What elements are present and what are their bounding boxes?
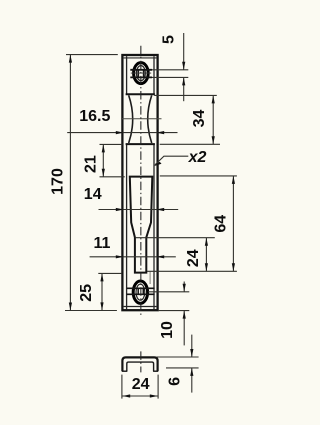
dim 6 extension bottom	[166, 367, 199, 369]
svg-text:64: 64	[212, 215, 229, 233]
inner bottom edge	[124, 306, 157, 308]
curved flange left	[129, 95, 133, 143]
dim 170 extension bottom	[65, 310, 117, 312]
section view inner profile	[127, 362, 154, 371]
dim 64 extension top	[160, 175, 237, 177]
svg-text:10: 10	[159, 321, 176, 339]
dim 34 extension top	[154, 94, 217, 96]
top hole slot sides	[137, 69, 139, 77]
dim 34 line	[212, 95, 214, 144]
bottom hole counterbore outer	[133, 281, 147, 303]
top hole slot lower edge	[130, 76, 152, 78]
inner flange line right	[153, 56, 155, 309]
dim 6 arrows	[190, 349, 193, 357]
dim 6 line lower	[191, 368, 193, 393]
dim 5 line upper	[183, 33, 185, 70]
top hole inner	[136, 66, 145, 81]
dim 10 arrows	[183, 284, 186, 292]
dim 10 line upper	[183, 282, 185, 292]
part outline (main view faceplate)	[122, 55, 157, 310]
section wall bottom caps	[122, 370, 127, 372]
cutout mid line	[121, 118, 162, 120]
dim 5 slot edge extensions	[152, 69, 188, 71]
dim 24 section line	[122, 395, 158, 397]
dim 64 line	[232, 176, 234, 271]
dim 24 section extension left	[121, 375, 123, 399]
dim 16.5 line	[67, 132, 177, 134]
note x2 leader arrowhead	[154, 162, 162, 166]
dim 170 extension top	[66, 54, 118, 56]
top hole counterbore outer	[134, 63, 149, 84]
dim 64 arrows	[232, 176, 235, 184]
section centerline	[140, 351, 142, 372]
svg-text:x2: x2	[188, 149, 207, 166]
part vertical centerline	[140, 46, 142, 317]
svg-text:170: 170	[50, 168, 67, 195]
dim 21 extension top	[100, 143, 123, 145]
svg-text:25: 25	[78, 284, 95, 302]
dim 24 right extension top	[135, 237, 215, 239]
latch cutout top edge	[126, 93, 155, 95]
top hole horizontal centerline	[131, 72, 151, 74]
bottom hole center extension line	[148, 291, 189, 293]
dim 10 line lower	[183, 311, 185, 346]
dim 24 right line	[205, 238, 207, 272]
top hole slot upper edge	[130, 69, 152, 71]
bottom hole slot sides	[137, 288, 139, 295]
svg-text:24: 24	[185, 249, 202, 267]
latch cutout bottom edge	[126, 143, 155, 145]
svg-text:24: 24	[132, 376, 150, 393]
dim 11 arrows	[116, 255, 124, 258]
svg-text:21: 21	[82, 155, 99, 173]
dim 21 arrows	[102, 144, 105, 152]
dim 34 arrows	[212, 95, 215, 103]
svg-text:14: 14	[84, 186, 102, 203]
dim 5 line lower	[183, 77, 185, 101]
svg-text:6: 6	[167, 377, 184, 386]
dim 11 line	[90, 256, 176, 258]
svg-text:34: 34	[191, 110, 208, 128]
note x2 leader	[155, 156, 188, 165]
bottom hole slot lower edge	[127, 293, 155, 295]
bottom hole slot upper edge	[127, 287, 155, 289]
section view outer profile	[122, 357, 157, 371]
bottom hole inner	[136, 284, 145, 300]
dim 21 extension bottom	[100, 176, 125, 178]
dim 16.5 arrows	[116, 131, 124, 134]
long slot	[130, 177, 153, 273]
stray gray line	[149, 272, 151, 284]
dim 25 extension top	[98, 272, 122, 274]
dim 170 line	[69, 55, 71, 311]
dim 6 line upper	[191, 335, 193, 357]
svg-text:11: 11	[94, 235, 111, 252]
inner top edge	[124, 57, 157, 59]
dim 24 right arrows	[205, 238, 208, 246]
dim 25 line	[101, 273, 103, 310]
dim 10 extension bottom	[158, 310, 189, 312]
svg-text:5: 5	[161, 35, 178, 44]
dim 14 line	[99, 209, 179, 211]
dim 34 extension bottom	[160, 143, 220, 145]
inner flange line left	[126, 56, 128, 309]
dim 14 arrows	[116, 208, 124, 211]
svg-text:16.5: 16.5	[79, 108, 110, 125]
dim 64/24 extension bottom	[147, 270, 237, 272]
dim 6 extension top	[157, 356, 199, 358]
dim 24 section arrows	[122, 394, 130, 397]
dim 25 arrows	[100, 273, 103, 281]
dim 24 section extension right	[157, 375, 159, 399]
dim 170 arrows	[69, 55, 72, 63]
curved flange right	[148, 95, 152, 143]
dim 5 arrows	[182, 62, 185, 70]
dim 21 line	[102, 144, 104, 176]
